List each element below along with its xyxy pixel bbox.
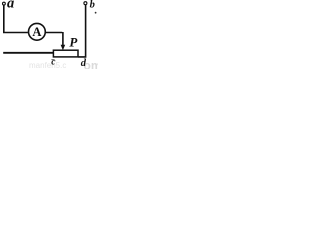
svg-text:A: A — [32, 25, 41, 39]
svg-text:b: b — [90, 0, 95, 11]
svg-text:P: P — [69, 34, 78, 49]
svg-text:a: a — [7, 0, 14, 12]
svg-text:d: d — [81, 58, 87, 69]
svg-text:manfen5.c: manfen5.c — [29, 61, 66, 69]
